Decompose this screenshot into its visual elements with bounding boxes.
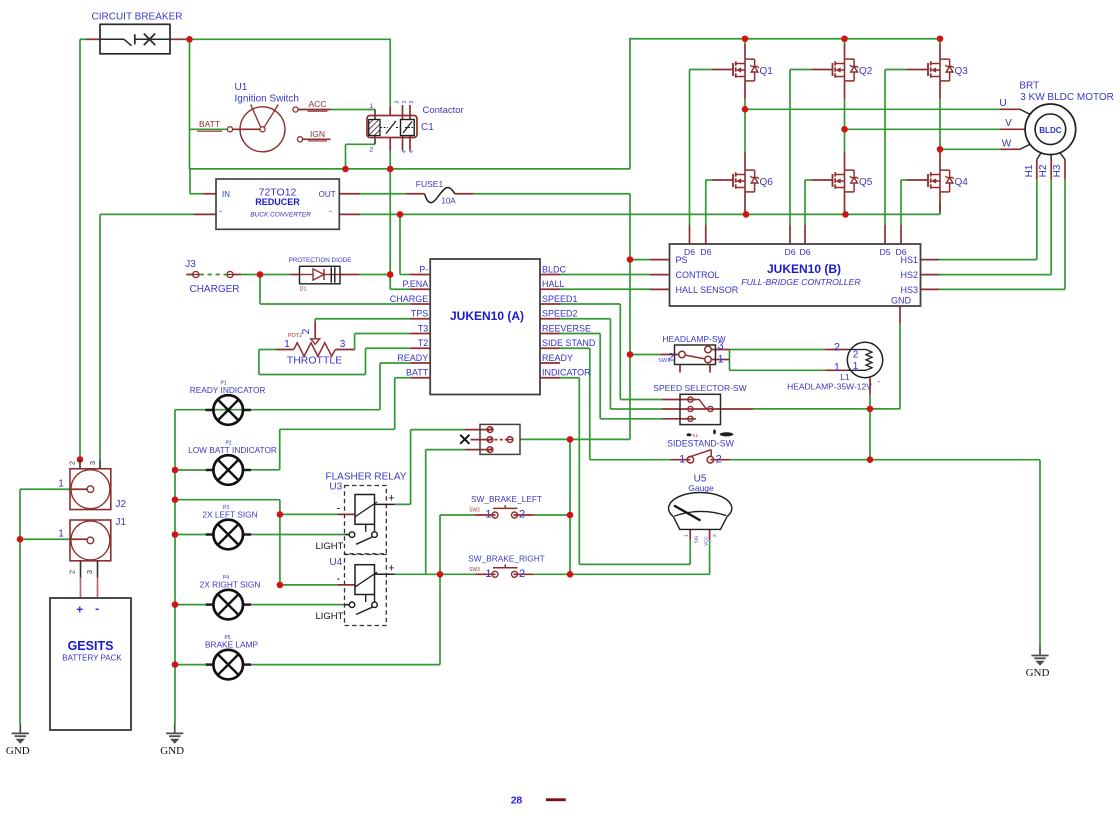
svg-text:D6: D6 — [684, 247, 695, 257]
svg-text:J1: J1 — [116, 517, 127, 528]
svg-text:L1: L1 — [840, 372, 850, 382]
svg-text:BRAKE LAMP: BRAKE LAMP — [205, 640, 258, 650]
svg-text:1: 1 — [485, 509, 491, 521]
svg-text:T2: T2 — [418, 338, 429, 348]
svg-text:ACC: ACC — [309, 99, 327, 109]
svg-text:CHARGE: CHARGE — [390, 294, 429, 304]
svg-text:VCC: VCC — [703, 535, 708, 546]
svg-text:SPEED2: SPEED2 — [542, 309, 578, 319]
svg-text:3: 3 — [395, 101, 401, 104]
svg-text:-: - — [329, 206, 332, 216]
svg-text:SW_BRAKE_LEFT: SW_BRAKE_LEFT — [471, 494, 542, 504]
svg-text:10A: 10A — [441, 197, 456, 206]
svg-text:2: 2 — [519, 509, 525, 521]
svg-text:GND: GND — [160, 745, 184, 757]
svg-text:THROTTLE: THROTTLE — [287, 355, 342, 367]
svg-text:BATTERY PACK: BATTERY PACK — [62, 654, 122, 663]
svg-text:SIDE STAND: SIDE STAND — [542, 338, 596, 348]
svg-text:-: - — [878, 377, 881, 386]
svg-text:PROTECTION DIODE: PROTECTION DIODE — [289, 257, 352, 264]
svg-text:REEVERSE: REEVERSE — [542, 323, 591, 333]
svg-text:P.ENA: P.ENA — [402, 279, 428, 289]
svg-text:1: 1 — [370, 103, 374, 110]
svg-text:SW1: SW1 — [658, 358, 670, 364]
svg-text:READY: READY — [542, 353, 573, 363]
svg-text:HS3: HS3 — [900, 285, 918, 295]
svg-text:J2: J2 — [116, 499, 127, 510]
svg-text:CIRCUIT BREAKER: CIRCUIT BREAKER — [92, 12, 183, 23]
svg-text:2: 2 — [853, 350, 859, 361]
svg-text:2: 2 — [519, 568, 525, 580]
svg-text:2: 2 — [834, 342, 840, 354]
svg-text:3: 3 — [88, 461, 97, 465]
svg-text:D6: D6 — [799, 247, 810, 257]
svg-text:+: + — [388, 493, 394, 505]
svg-text:HALL SENSOR: HALL SENSOR — [676, 285, 739, 295]
svg-text:-: - — [219, 206, 222, 216]
svg-text:1: 1 — [58, 529, 64, 540]
svg-text:FUSE1: FUSE1 — [416, 179, 444, 189]
svg-text:2: 2 — [370, 147, 374, 154]
svg-text:LIGHT: LIGHT — [316, 611, 344, 622]
svg-text:H3: H3 — [1052, 164, 1063, 177]
svg-text:2: 2 — [301, 328, 312, 334]
svg-text:C1: C1 — [421, 122, 434, 133]
svg-text:Q4: Q4 — [955, 177, 969, 188]
svg-text:JUKEN10 (B): JUKEN10 (B) — [767, 262, 841, 276]
svg-text:BATT: BATT — [406, 368, 429, 378]
svg-text:H1: H1 — [1024, 164, 1035, 177]
svg-text:1: 1 — [683, 534, 688, 537]
svg-text:Q6: Q6 — [760, 177, 774, 188]
svg-text:HEADLAMP-35W-12V: HEADLAMP-35W-12V — [787, 382, 872, 392]
svg-text:POT2: POT2 — [288, 333, 302, 339]
svg-text:3: 3 — [718, 340, 724, 352]
svg-text:IN: IN — [222, 190, 230, 199]
svg-text:U3: U3 — [329, 482, 342, 493]
svg-text:-: - — [95, 602, 99, 616]
svg-text:8: 8 — [516, 794, 522, 806]
svg-text:CONTROL: CONTROL — [676, 270, 720, 280]
svg-text:2X LEFT SIGN: 2X LEFT SIGN — [202, 510, 257, 520]
svg-text:OUT: OUT — [319, 190, 336, 199]
svg-text:HS2: HS2 — [900, 270, 918, 280]
svg-text:D5: D5 — [879, 247, 890, 257]
svg-text:U: U — [999, 98, 1006, 109]
svg-text:1: 1 — [284, 339, 290, 350]
svg-text:Q1: Q1 — [760, 66, 774, 77]
svg-text:GND: GND — [1026, 667, 1050, 679]
svg-text:SW2: SW2 — [469, 508, 480, 514]
svg-text:Q2: Q2 — [859, 66, 873, 77]
svg-text:3: 3 — [85, 570, 94, 574]
svg-text:3: 3 — [409, 101, 415, 104]
svg-text:1: 1 — [485, 568, 491, 580]
svg-text:GND: GND — [891, 296, 912, 306]
svg-text:J3: J3 — [185, 259, 196, 270]
svg-text:BUCK CONVERTER: BUCK CONVERTER — [250, 212, 311, 219]
svg-text:GND: GND — [6, 745, 30, 757]
svg-text:Ignition Switch: Ignition Switch — [235, 94, 299, 105]
svg-text:REDUCER: REDUCER — [255, 197, 300, 207]
svg-text:Gauge: Gauge — [688, 483, 714, 493]
svg-text:GESITS: GESITS — [68, 639, 114, 653]
svg-text:HS1: HS1 — [900, 255, 918, 265]
svg-text:2: 2 — [712, 534, 717, 537]
svg-text:U4: U4 — [329, 557, 342, 568]
svg-text:1: 1 — [834, 362, 840, 374]
svg-text:U1: U1 — [235, 82, 248, 93]
svg-text:D6: D6 — [700, 247, 711, 257]
svg-text:LOW BATT INDICATOR: LOW BATT INDICATOR — [188, 445, 277, 455]
svg-text:SW_BRAKE_RIGHT: SW_BRAKE_RIGHT — [468, 554, 545, 564]
svg-text:Q3: Q3 — [955, 66, 969, 77]
svg-text:1: 1 — [679, 454, 685, 466]
svg-text:H2: H2 — [1038, 164, 1049, 177]
svg-text:READY: READY — [397, 353, 428, 363]
svg-text:2X RIGHT SIGN: 2X RIGHT SIGN — [200, 580, 261, 590]
svg-text:BRT: BRT — [1019, 81, 1039, 92]
svg-text:-: - — [337, 503, 341, 515]
svg-text:P-: P- — [419, 264, 428, 274]
svg-text:BLDC: BLDC — [1039, 126, 1061, 135]
svg-text:2: 2 — [68, 570, 77, 574]
svg-text:JUKEN10 (A): JUKEN10 (A) — [450, 309, 524, 323]
svg-text:3: 3 — [402, 101, 408, 104]
svg-text:SIDESTAND-SW: SIDESTAND-SW — [667, 439, 734, 449]
svg-text:SIG: SIG — [694, 535, 699, 543]
svg-text:HALL: HALL — [542, 279, 565, 289]
svg-text:K1: K1 — [693, 433, 699, 438]
svg-text:3 KW BLDC MOTOR: 3 KW BLDC MOTOR — [1020, 92, 1114, 103]
svg-text:INDICATOR: INDICATOR — [542, 368, 591, 378]
svg-text:2: 2 — [716, 454, 722, 466]
svg-text:1: 1 — [718, 354, 724, 366]
svg-text:D1: D1 — [299, 287, 306, 293]
svg-text:SPEED1: SPEED1 — [542, 294, 578, 304]
svg-text:TPS: TPS — [411, 309, 429, 319]
svg-text:3: 3 — [340, 339, 346, 350]
svg-text:READY INDICATOR: READY INDICATOR — [190, 385, 266, 395]
svg-text:BATT: BATT — [199, 119, 220, 129]
svg-text:-: - — [337, 573, 341, 585]
svg-text:IGN: IGN — [310, 129, 325, 139]
svg-text:2: 2 — [68, 461, 77, 465]
svg-text:HEADLAMP-SW: HEADLAMP-SW — [662, 334, 725, 344]
svg-text:FULL-BRIDGE CONTROLLER: FULL-BRIDGE CONTROLLER — [741, 277, 860, 287]
svg-text:+: + — [388, 562, 394, 574]
svg-text:D6: D6 — [784, 247, 795, 257]
svg-text:LIGHT: LIGHT — [316, 541, 344, 552]
svg-text:V: V — [1005, 118, 1012, 129]
svg-text:T3: T3 — [418, 323, 429, 333]
svg-text:1: 1 — [58, 479, 64, 490]
svg-text:W: W — [1002, 138, 1012, 149]
svg-text:SW3: SW3 — [469, 567, 480, 573]
svg-text:4: 4 — [402, 150, 408, 153]
svg-text:BLDC: BLDC — [542, 264, 567, 274]
svg-text:SPEED SELECTOR-SW: SPEED SELECTOR-SW — [653, 383, 746, 393]
svg-text:4: 4 — [409, 150, 415, 153]
svg-text:+: + — [76, 603, 83, 617]
svg-text:CHARGER: CHARGER — [189, 284, 239, 295]
svg-text:Contactor: Contactor — [423, 105, 464, 116]
svg-text:1: 1 — [853, 361, 859, 372]
svg-text:Q5: Q5 — [859, 177, 873, 188]
